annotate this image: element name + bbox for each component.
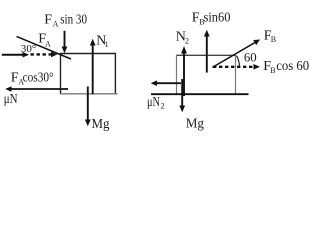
svg-text:Mg: Mg bbox=[186, 117, 204, 132]
svg-text:sin60: sin60 bbox=[204, 11, 231, 26]
svg-text:A: A bbox=[45, 40, 51, 49]
label FA sin 30 bbox=[44, 13, 87, 29]
label FB cos 60 bbox=[263, 59, 309, 75]
surface line under block M2 bbox=[151, 93, 249, 95]
svg-text:Mg: Mg bbox=[92, 117, 110, 132]
component arrow FA cos30 (dashed, right) bbox=[31, 52, 58, 58]
angle arc 60 bbox=[237, 56, 240, 68]
normal force arrow N1 (up) bbox=[90, 39, 96, 95]
label FB bbox=[264, 29, 276, 45]
label N1 bbox=[96, 33, 108, 49]
applied force arrow FB (diagonal up-right) bbox=[212, 40, 260, 68]
svg-text:μN: μN bbox=[147, 95, 160, 110]
svg-text:A: A bbox=[53, 20, 59, 29]
svg-text:B: B bbox=[270, 66, 275, 75]
horizontal reference arrow (solid, right) bbox=[2, 52, 29, 58]
svg-text:60: 60 bbox=[244, 50, 257, 65]
svg-text:B: B bbox=[271, 35, 276, 44]
label FB sin60 bbox=[192, 11, 231, 27]
svg-text:μN: μN bbox=[4, 92, 18, 107]
svg-text:2: 2 bbox=[185, 37, 189, 46]
svg-text:cos 60: cos 60 bbox=[276, 59, 309, 74]
applied force FA line (diagonal at 30deg) bbox=[17, 36, 72, 59]
label FA bbox=[38, 32, 51, 49]
label N2 bbox=[176, 30, 189, 46]
weight arrow Mg right (down) bbox=[179, 79, 185, 112]
force arrow FA sin 30 (down) bbox=[62, 31, 68, 54]
normal force arrow N2 (up) bbox=[181, 46, 187, 96]
block M2 box bbox=[177, 55, 236, 94]
component arrow FB cos 60 (dashed, right) bbox=[213, 64, 260, 70]
friction arrow muN (left) bbox=[5, 86, 68, 92]
svg-text:cos30°: cos30° bbox=[23, 71, 54, 86]
block M1 box bbox=[60, 54, 118, 94]
svg-text:F: F bbox=[44, 13, 52, 28]
force arrow FB sin60 (up) bbox=[204, 30, 210, 73]
label FA cos30 bbox=[11, 71, 54, 87]
friction arrow muN2 (left) bbox=[151, 80, 181, 86]
label muN2 bbox=[147, 95, 165, 111]
weight arrow Mg left (down) bbox=[85, 87, 91, 127]
svg-text:2: 2 bbox=[161, 102, 165, 111]
svg-text:1: 1 bbox=[105, 40, 109, 49]
svg-text:sin 30: sin 30 bbox=[60, 13, 87, 28]
